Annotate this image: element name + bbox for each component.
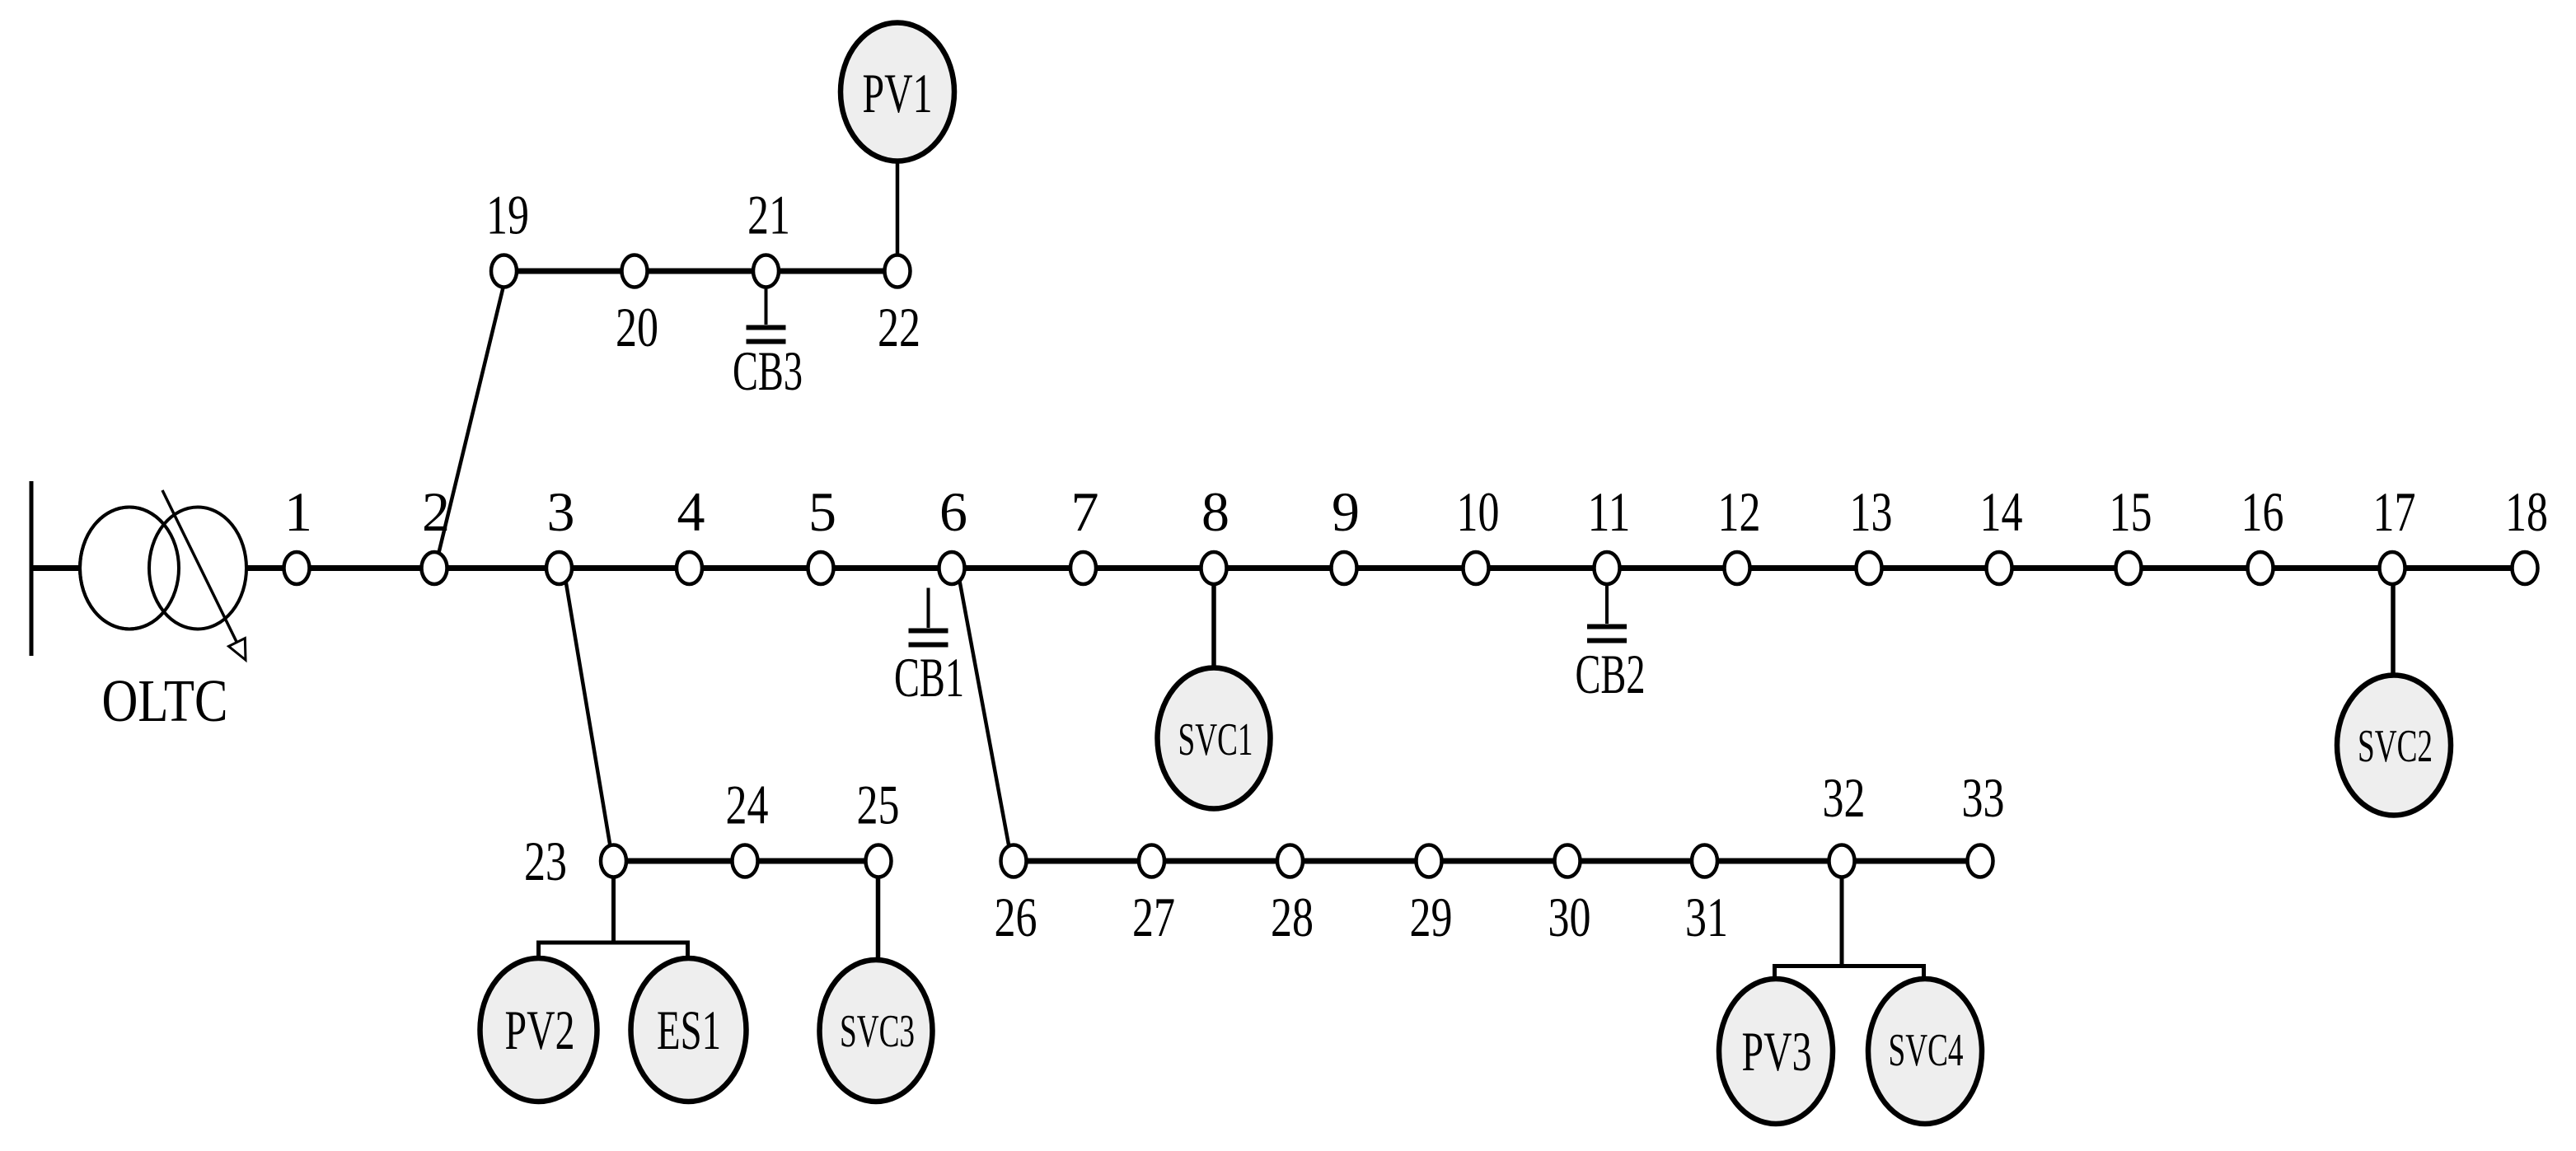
- svg-text:11: 11: [1588, 480, 1631, 543]
- svg-text:33: 33: [1962, 766, 2005, 829]
- svg-text:28: 28: [1271, 886, 1314, 948]
- svg-text:ES1: ES1: [657, 999, 721, 1061]
- svg-text:SVC1: SVC1: [1178, 714, 1253, 765]
- svg-text:14: 14: [1980, 480, 2023, 543]
- svg-text:15: 15: [2110, 480, 2152, 543]
- svg-text:SVC2: SVC2: [2358, 721, 2433, 772]
- svg-text:CB2: CB2: [1576, 643, 1646, 705]
- svg-text:10: 10: [1457, 480, 1500, 543]
- svg-text:30: 30: [1548, 886, 1591, 948]
- svg-text:16: 16: [2241, 480, 2284, 543]
- svg-text:2: 2: [422, 480, 450, 543]
- svg-text:6: 6: [939, 480, 967, 543]
- svg-text:7: 7: [1071, 480, 1099, 543]
- svg-text:25: 25: [857, 774, 900, 836]
- svg-text:31: 31: [1685, 886, 1728, 948]
- svg-text:PV3: PV3: [1742, 1020, 1812, 1083]
- svg-text:20: 20: [616, 296, 658, 358]
- svg-text:17: 17: [2373, 480, 2416, 543]
- svg-text:3: 3: [547, 480, 575, 543]
- svg-text:SVC3: SVC3: [840, 1006, 915, 1057]
- svg-text:CB3: CB3: [733, 339, 803, 402]
- svg-text:1: 1: [284, 480, 312, 543]
- svg-text:SVC4: SVC4: [1889, 1025, 1964, 1076]
- svg-text:24: 24: [726, 774, 769, 836]
- svg-text:18: 18: [2505, 480, 2548, 543]
- svg-text:4: 4: [677, 480, 705, 543]
- svg-text:13: 13: [1850, 480, 1893, 543]
- svg-text:CB1: CB1: [894, 646, 964, 709]
- svg-text:OLTC: OLTC: [102, 667, 228, 734]
- svg-text:29: 29: [1410, 886, 1453, 948]
- svg-text:26: 26: [995, 886, 1037, 948]
- svg-text:5: 5: [808, 480, 836, 543]
- svg-text:32: 32: [1823, 766, 1866, 829]
- svg-text:PV2: PV2: [505, 999, 575, 1061]
- svg-text:9: 9: [1332, 480, 1360, 543]
- svg-text:19: 19: [486, 184, 529, 246]
- svg-text:22: 22: [878, 296, 920, 358]
- svg-text:8: 8: [1201, 480, 1229, 543]
- svg-text:27: 27: [1132, 886, 1175, 948]
- svg-text:21: 21: [747, 184, 790, 246]
- svg-text:23: 23: [524, 830, 567, 892]
- svg-text:12: 12: [1718, 480, 1761, 543]
- svg-text:PV1: PV1: [863, 62, 933, 124]
